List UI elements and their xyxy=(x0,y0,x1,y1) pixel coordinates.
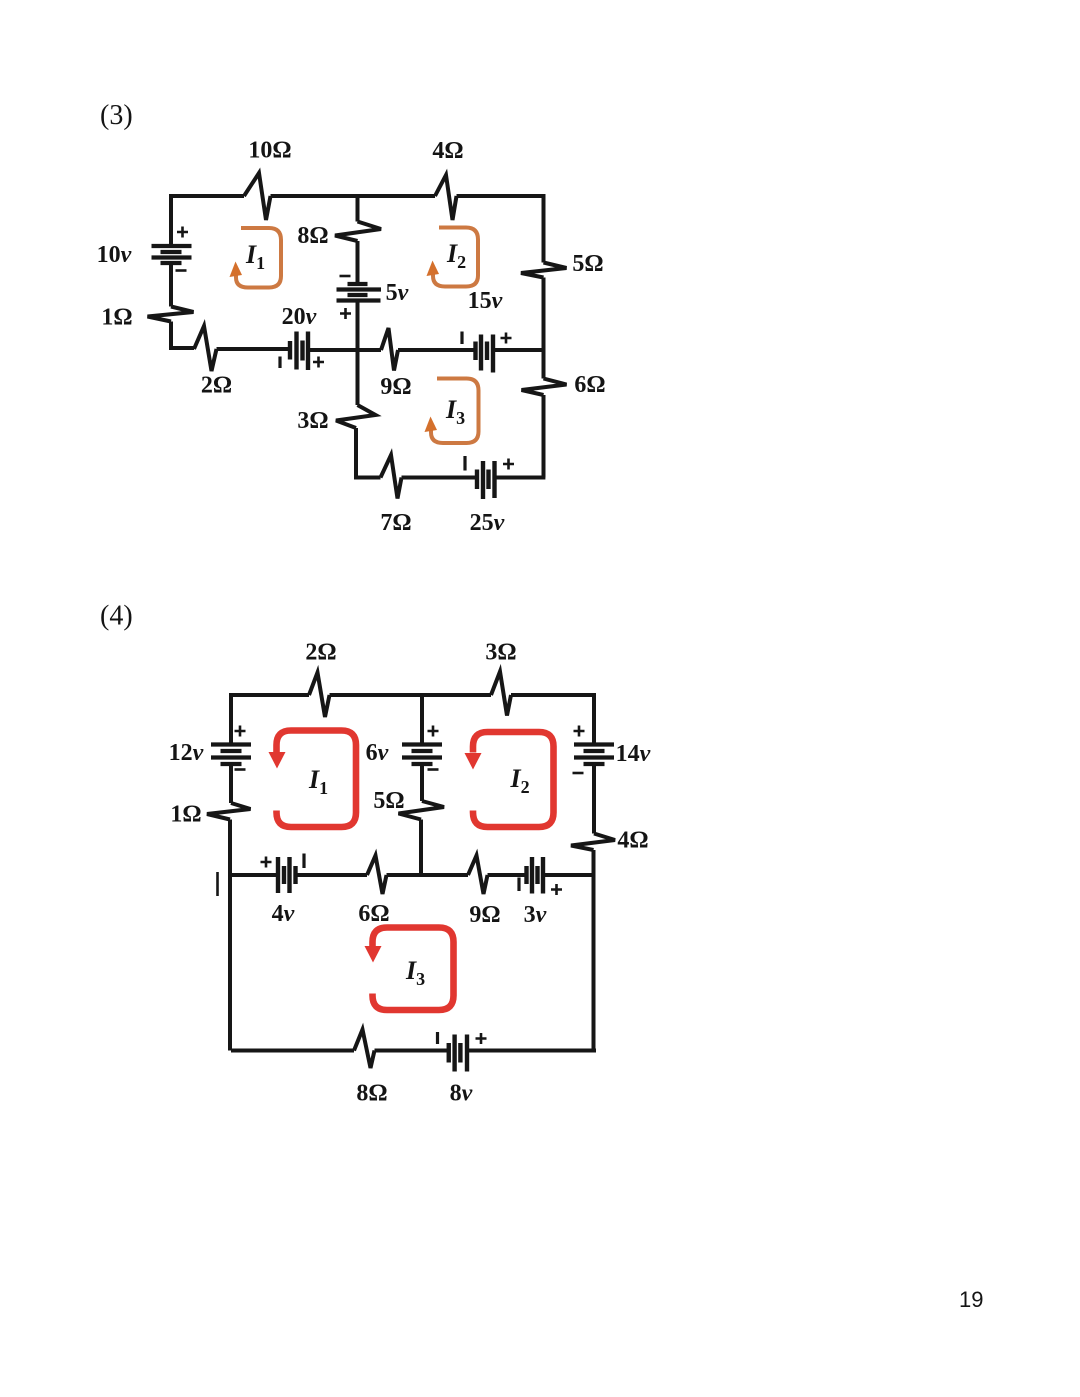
resistor 10ohm c3 xyxy=(244,173,271,220)
resistor 9ohm c3 xyxy=(381,328,398,371)
wire c4 top-middle segment xyxy=(330,693,492,697)
polarity minus 5v c3 xyxy=(340,275,351,278)
svg-text:1Ω: 1Ω xyxy=(101,305,132,331)
battery 12v c4 xyxy=(211,745,251,765)
resistor 3ohm c3 xyxy=(336,405,376,428)
wire c3 top-middle segment xyxy=(271,194,436,198)
svg-text:8v: 8v xyxy=(450,1081,473,1107)
svg-text:9Ω: 9Ω xyxy=(469,902,500,928)
mesh loop I2 c4 xyxy=(473,732,554,827)
svg-text:3v: 3v xyxy=(524,902,547,928)
svg-text:5v: 5v xyxy=(386,280,409,306)
svg-text:8Ω: 8Ω xyxy=(297,223,328,249)
svg-text:5Ω: 5Ω xyxy=(373,788,404,814)
resistor 6ohm c3 xyxy=(522,379,567,396)
wire c3 right vertical mid xyxy=(542,278,546,379)
wire c4 middle horizontal to 6ohm xyxy=(296,873,368,877)
arrowhead I3 c4 xyxy=(365,946,382,963)
wire c4 middle horizontal right xyxy=(543,873,594,877)
svg-text:14v: 14v xyxy=(616,741,651,767)
svg-text:6Ω: 6Ω xyxy=(574,372,605,398)
svg-text:5Ω: 5Ω xyxy=(572,251,603,277)
resistor 2ohm c4 xyxy=(309,673,330,718)
wire c3 middle vertical bottom xyxy=(356,428,381,478)
wire c3 right vertical lower xyxy=(542,395,546,478)
wire c4 left vertical lower xyxy=(228,820,232,1051)
wire c3 middle vertical through junction xyxy=(356,301,360,406)
polarity plus 10v c3 xyxy=(177,227,188,238)
arrowhead I1 c3 xyxy=(230,262,243,278)
battery 14v c4 xyxy=(574,745,614,765)
resistor 4ohm c3 xyxy=(435,175,457,220)
resistor 1ohm c3 xyxy=(148,307,194,322)
wire c4 bottom-right horizontal xyxy=(467,1049,596,1053)
resistor 5ohm c3 xyxy=(521,263,567,278)
battery 4v c4 xyxy=(278,857,296,893)
arrowhead I2 c3 xyxy=(427,261,440,277)
polarity plus 3v c4 xyxy=(551,884,562,895)
resistor 8ohm c4 xyxy=(354,1030,375,1069)
wire c4 right vertical upper xyxy=(592,693,596,745)
wire c3 middle horizontal right xyxy=(493,348,544,352)
wire c3 bottom horizontal xyxy=(402,476,478,480)
battery 5v c3 xyxy=(337,284,382,301)
polarity minus 14v c4 xyxy=(573,772,584,775)
wire c4 left vertical mid xyxy=(229,764,233,803)
wire c4 right vertical lower xyxy=(592,850,596,1051)
wire c3 left vertical mid xyxy=(169,263,173,307)
resistor 7ohm c3 xyxy=(381,455,402,499)
wire c4 middle horizontal to 3v xyxy=(488,873,527,877)
polarity plus 4v c4 xyxy=(261,857,272,868)
mesh loop I3 c4 xyxy=(373,928,454,1011)
resistor 3ohm c4 xyxy=(491,672,511,716)
wire c3 right vertical upper xyxy=(542,194,546,263)
resistor 5ohm c4 xyxy=(399,801,445,820)
resistor 6ohm c4 xyxy=(367,856,387,895)
polarity plus 15v c3 xyxy=(501,333,512,344)
polarity plus 25v c3 xyxy=(503,459,514,470)
battery 10v c3 xyxy=(152,246,192,263)
battery 6v c4 xyxy=(402,745,442,765)
polarity tick 15v c3 xyxy=(460,332,463,345)
svg-text:10Ω: 10Ω xyxy=(248,138,291,164)
resistor 4ohm c4 xyxy=(571,834,615,851)
wire c4 bottom horizontal to 8v xyxy=(375,1049,449,1053)
polarity minus 12v c4 xyxy=(235,768,246,771)
polarity plus 6v c4 xyxy=(428,726,439,737)
wire c4 bottom-left horizontal xyxy=(231,1049,354,1053)
wire c3 top-left segment xyxy=(171,194,244,198)
svg-text:4Ω: 4Ω xyxy=(617,828,648,854)
battery 8v c4 xyxy=(449,1035,467,1072)
polarity tick 20v c3 xyxy=(278,357,281,369)
svg-text:12v: 12v xyxy=(169,740,204,766)
polarity minus 10v c3 xyxy=(176,269,187,272)
wire c3 lower-left horizontal xyxy=(217,347,291,351)
svg-text:2Ω: 2Ω xyxy=(201,373,232,399)
arrowhead I2 c4 xyxy=(465,753,482,770)
svg-text:25v: 25v xyxy=(470,510,505,536)
wire c4 top-right segment xyxy=(511,693,594,697)
svg-text:10v: 10v xyxy=(97,242,132,268)
svg-text:(3): (3) xyxy=(100,100,133,131)
svg-text:9Ω: 9Ω xyxy=(380,374,411,400)
wire c3 left vertical lower and corner xyxy=(171,322,194,349)
svg-text:15v: 15v xyxy=(468,288,503,314)
polarity tick 3v c4 xyxy=(517,878,520,892)
wire c3 left vertical upper xyxy=(169,194,173,246)
polarity plus 5v c3 xyxy=(340,308,351,319)
svg-text:20v: 20v xyxy=(282,304,317,330)
polarity plus 20v c3 xyxy=(313,357,324,368)
battery 15v c3 xyxy=(476,335,494,373)
wire c3 middle horizontal left stub xyxy=(358,348,382,352)
wire c3 middle horizontal to 15v xyxy=(398,348,476,352)
wire c3 middle vertical to 5v xyxy=(356,241,360,284)
svg-text:(4): (4) xyxy=(100,601,133,632)
svg-text:19: 19 xyxy=(959,1287,983,1312)
resistor 2ohm c3 xyxy=(194,326,217,371)
wire c4 top-left segment xyxy=(231,693,309,697)
wire c4 middle vertical stub xyxy=(420,695,424,745)
wire c4 middle-left horizontal xyxy=(231,873,278,877)
polarity plus 14v c4 xyxy=(574,726,585,737)
wire c4 right vertical mid xyxy=(592,764,596,834)
wire c3 bottom-right horizontal xyxy=(495,476,546,480)
mesh loop I2 c3 xyxy=(433,228,478,287)
mesh loop I3 c3 xyxy=(431,379,479,444)
resistor 9ohm c4 xyxy=(468,856,488,895)
svg-text:3Ω: 3Ω xyxy=(485,640,516,666)
arrowhead I3 c3 xyxy=(425,417,438,433)
wire c4 left vertical upper xyxy=(229,693,233,745)
battery 25v c3 xyxy=(477,461,495,499)
svg-text:7Ω: 7Ω xyxy=(380,510,411,536)
svg-text:6Ω: 6Ω xyxy=(358,901,389,927)
wire c4 middle vertical mid xyxy=(420,764,424,801)
resistor 1ohm c4 xyxy=(207,803,251,820)
stray tick left end c4 xyxy=(216,872,219,896)
polarity tick 4v c4 xyxy=(302,854,305,869)
wire c3 middle vertical stub xyxy=(356,194,360,222)
resistor 8ohm c3 xyxy=(335,222,381,242)
wire c4 middle vertical lower xyxy=(419,820,423,876)
polarity minus 6v c4 xyxy=(428,768,439,771)
polarity plus 12v c4 xyxy=(235,726,246,737)
wire c3 top-right segment xyxy=(457,194,544,198)
wire c4 middle horizontal to 9ohm xyxy=(387,873,469,877)
svg-text:6v: 6v xyxy=(366,740,389,766)
mesh loop I1 c4 xyxy=(277,731,357,828)
polarity plus 8v c4 xyxy=(476,1033,487,1044)
svg-text:3Ω: 3Ω xyxy=(297,408,328,434)
polarity tick 25v c3 xyxy=(463,456,466,471)
polarity tick 8v c4 xyxy=(436,1032,439,1044)
svg-text:2Ω: 2Ω xyxy=(305,640,336,666)
battery 20v c3 xyxy=(290,332,308,371)
wire c3 horizontal to middle junction xyxy=(308,348,358,352)
mesh loop I1 c3 xyxy=(236,228,281,288)
svg-text:1Ω: 1Ω xyxy=(170,802,201,828)
svg-text:4v: 4v xyxy=(272,901,295,927)
svg-text:4Ω: 4Ω xyxy=(432,138,463,164)
battery 3v c4 xyxy=(527,857,544,894)
svg-text:8Ω: 8Ω xyxy=(356,1081,387,1107)
arrowhead I1 c4 xyxy=(269,752,286,769)
